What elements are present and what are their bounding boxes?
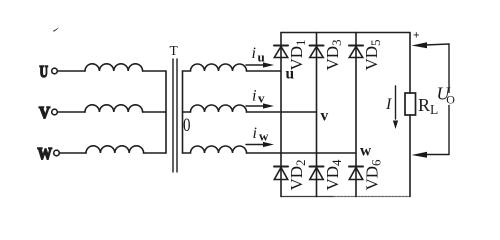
wire W winding to primary bus: [144, 152, 166, 154]
diode VD5: [349, 39, 383, 70]
secondary star bus wire: [182, 71, 184, 153]
bridge leg 2 wire: [316, 33, 318, 197]
svg-text:U: U: [40, 62, 49, 81]
bridge leg 1 wire: [280, 33, 282, 197]
svg-text:i: i: [252, 88, 256, 105]
svg-text:V: V: [39, 103, 51, 122]
svg-text:T: T: [170, 43, 179, 58]
wire u to bridge: [247, 70, 282, 72]
wire U winding to primary bus: [143, 70, 166, 72]
secondary winding u: [183, 64, 247, 71]
UO bracket bottom arrow: [412, 152, 450, 158]
svg-text:w: w: [259, 129, 269, 144]
primary bus wire: [165, 71, 167, 153]
terminal V: [39, 103, 57, 122]
voltage label UO: [437, 84, 456, 107]
wire V winding to primary bus: [143, 111, 166, 113]
current label i_w: [246, 125, 274, 147]
secondary winding v: [183, 105, 247, 112]
bridge leg 3 wire: [355, 33, 357, 197]
secondary winding w: [183, 146, 247, 153]
svg-text:v: v: [258, 91, 265, 106]
primary winding W: [86, 146, 144, 153]
wire w to bridge: [247, 152, 357, 154]
wire W terminal to primary winding: [60, 152, 87, 154]
svg-text:I: I: [385, 96, 392, 113]
wire v to bridge: [247, 111, 317, 113]
UO bracket top arrow: [412, 42, 450, 48]
primary winding V: [85, 105, 143, 112]
current label i_v: [246, 88, 274, 109]
svg-text:w: w: [360, 143, 372, 160]
diode VD4: [310, 159, 345, 191]
stray scan mark: [53, 27, 59, 31]
wire U terminal to primary winding: [58, 70, 86, 72]
wire load line bottom: [409, 115, 411, 197]
svg-text:+: +: [413, 30, 420, 42]
current label i_u: [246, 45, 274, 68]
primary winding U: [85, 64, 143, 71]
svg-text:i: i: [253, 125, 257, 142]
svg-text:v: v: [321, 108, 329, 125]
polarity +: [413, 30, 420, 42]
diode VD1: [274, 39, 308, 70]
current label I with arrow: [385, 86, 398, 129]
svg-text:i: i: [252, 45, 256, 62]
svg-text:O: O: [446, 93, 455, 107]
transformer T core: [170, 43, 179, 172]
resistor RL: [405, 93, 438, 117]
UO bracket vertical wire: [448, 44, 450, 93]
bridge bottom rail wire (-): [281, 196, 334, 198]
bridge top rail wire (+): [281, 32, 410, 34]
terminal U: [40, 62, 58, 81]
wire load line top: [409, 33, 411, 94]
wire V terminal to primary winding: [58, 111, 86, 113]
diode VD6: [349, 159, 384, 191]
svg-text:u: u: [258, 50, 265, 65]
svg-text:0: 0: [183, 115, 191, 136]
terminal W: [38, 144, 60, 163]
diode VD3: [310, 39, 345, 70]
svg-text:W: W: [38, 144, 53, 163]
diode VD2: [274, 159, 308, 190]
